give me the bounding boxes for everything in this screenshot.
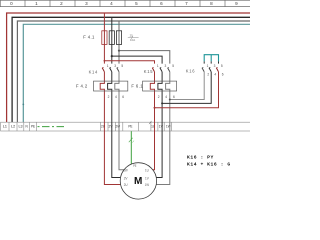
junction node 1V bbox=[161, 102, 163, 104]
contactor K14 contact pole 3 bbox=[110, 67, 112, 71]
svg-text:2: 2 bbox=[207, 73, 209, 77]
overload relay F6.1 box bbox=[143, 81, 177, 91]
wire K14 pole1 to F4.2 bbox=[100, 72, 104, 123]
svg-text:0: 0 bbox=[10, 1, 13, 6]
svg-text:F 4.2: F 4.2 bbox=[76, 84, 88, 89]
svg-text:F 4.1: F 4.1 bbox=[83, 34, 95, 39]
wire K16 pole2 to node 1W bbox=[170, 72, 204, 100]
svg-text:6: 6 bbox=[222, 73, 224, 77]
svg-text:8: 8 bbox=[210, 1, 213, 6]
motor pin 2W bbox=[124, 168, 129, 172]
label F4.1 bbox=[83, 34, 95, 39]
terminal dividers left group bbox=[9, 122, 37, 131]
wire branch L1 to pole 1 of K15 bbox=[104, 61, 154, 64]
motor pin 2U bbox=[124, 183, 128, 187]
svg-text:4: 4 bbox=[214, 73, 216, 77]
overload relay F4.2 box bbox=[94, 81, 128, 91]
svg-text:2: 2 bbox=[158, 95, 160, 99]
pin numbers 1 3 5 of K16 bbox=[207, 64, 223, 68]
pin numbers 2 4 6 under F4.2 bbox=[108, 95, 125, 99]
contactor K15 label bbox=[144, 69, 153, 74]
star bridge of K16 (teal) bbox=[204, 55, 218, 62]
contactor K14 contact pole 5 bbox=[117, 67, 119, 71]
svg-text:7: 7 bbox=[185, 1, 188, 6]
svg-text:PE: PE bbox=[31, 125, 36, 129]
terminal dividers motor group 2 bbox=[100, 122, 138, 131]
contactor K16 contact pole 5 bbox=[216, 61, 218, 71]
svg-text:6: 6 bbox=[122, 95, 124, 99]
svg-text:L1: L1 bbox=[3, 125, 7, 129]
svg-text:2: 2 bbox=[108, 95, 110, 99]
motor pin 1W bbox=[145, 183, 150, 187]
svg-text:2U: 2U bbox=[124, 183, 128, 187]
PE bus green dashed bbox=[38, 126, 67, 128]
wire L1 rail (red) bbox=[7, 13, 250, 122]
svg-text:PE: PE bbox=[128, 125, 133, 129]
svg-text:6: 6 bbox=[173, 95, 175, 99]
motor pin 1V bbox=[145, 176, 150, 180]
svg-text:4: 4 bbox=[115, 95, 117, 99]
svg-text:1: 1 bbox=[207, 64, 209, 68]
ruler column scale bbox=[0, 0, 250, 7]
wire branch L2 to pole 3 of K15 bbox=[112, 56, 162, 64]
svg-text:3: 3 bbox=[214, 64, 216, 68]
contactor K15 contact pole 1 bbox=[152, 67, 154, 71]
fuse F4.1 pole 3 bbox=[116, 31, 121, 45]
node on N wire bbox=[22, 104, 24, 106]
wire L2 to fuse F4.1 and pole 3 of K14 bbox=[111, 17, 113, 63]
cable slash mark at 1U bbox=[149, 121, 151, 124]
terminal labels L1 L2 L3 N PE bbox=[3, 125, 36, 129]
svg-text:K14 + K16 : G: K14 + K16 : G bbox=[187, 162, 231, 168]
svg-text:1: 1 bbox=[157, 64, 159, 68]
svg-text:M: M bbox=[134, 176, 142, 187]
wire 1V to motor bbox=[156, 122, 162, 178]
svg-text:1U: 1U bbox=[145, 168, 149, 172]
svg-text:2V: 2V bbox=[109, 125, 114, 129]
wire L2 rail (black) bbox=[12, 17, 250, 122]
contactor K16 contact pole 1 bbox=[202, 61, 204, 71]
terminal labels 1U 1V 1W bbox=[151, 125, 171, 129]
terminal dividers motor group 1 bbox=[151, 122, 172, 131]
wire L3 rail (gray) bbox=[17, 21, 250, 122]
svg-text:1V: 1V bbox=[159, 125, 164, 129]
value label fuse rating bbox=[128, 34, 139, 42]
svg-text:N: N bbox=[26, 125, 28, 129]
wire L3 to fuse F4.1 and pole 5 of K14 bbox=[118, 21, 120, 64]
wire PE green to motor bbox=[130, 131, 132, 164]
svg-text:9: 9 bbox=[235, 1, 238, 6]
svg-text:K15: K15 bbox=[144, 69, 153, 74]
wire K15 pole1 to F6.1 bbox=[150, 72, 154, 123]
pin numbers 2 4 6 under F6.1 bbox=[158, 95, 175, 99]
svg-text:1: 1 bbox=[35, 1, 38, 6]
svg-text:3: 3 bbox=[165, 64, 167, 68]
contactor K14 label bbox=[89, 70, 98, 75]
motor M1 bbox=[120, 163, 156, 199]
ruler numbers 0-9 bbox=[10, 1, 238, 6]
terminal labels 2U 2V 2W PE bbox=[101, 125, 133, 129]
contactor K16 label bbox=[186, 68, 195, 73]
svg-text:4: 4 bbox=[110, 1, 113, 6]
motor pin PE bbox=[133, 164, 137, 168]
svg-text:1: 1 bbox=[107, 64, 109, 68]
junction on L1 branch bbox=[104, 60, 106, 62]
junction node 1U bbox=[154, 107, 156, 109]
wire K15 pole3 to F6.1 bbox=[158, 72, 162, 123]
svg-text:K16: K16 bbox=[186, 68, 195, 73]
wire 1U to motor bbox=[153, 122, 155, 170]
pin numbers 1 3 5 of K14 bbox=[107, 64, 124, 68]
svg-text:25: 25 bbox=[130, 34, 134, 38]
contactor K15 contact pole 3 bbox=[160, 67, 162, 71]
pin numbers 2 4 6 of K16 bbox=[207, 73, 223, 77]
svg-text:3: 3 bbox=[85, 1, 88, 6]
svg-text:L3: L3 bbox=[18, 125, 22, 129]
motor pin 2V bbox=[124, 176, 129, 180]
svg-text:F 6.1: F 6.1 bbox=[131, 84, 143, 89]
wire K14 pole3 to F4.2 bbox=[108, 72, 112, 123]
svg-text:5: 5 bbox=[172, 64, 174, 68]
wire 2U to motor bbox=[104, 122, 120, 185]
fuse F4.1 pole 2 bbox=[109, 31, 114, 45]
note text K16 function bbox=[187, 155, 231, 168]
contactor K16 contact pole 3 bbox=[209, 61, 211, 71]
svg-text:5: 5 bbox=[121, 64, 123, 68]
junction node 1W bbox=[169, 99, 171, 101]
wire 1W to motor bbox=[156, 122, 170, 185]
label F4.2 bbox=[76, 84, 88, 89]
wire 2W to motor bbox=[119, 122, 124, 170]
label F6.1 bbox=[131, 84, 143, 89]
svg-text:K14: K14 bbox=[89, 70, 98, 75]
svg-text:2: 2 bbox=[60, 1, 63, 6]
pin numbers 1 3 5 of K15 bbox=[157, 64, 174, 68]
svg-text:5: 5 bbox=[221, 64, 223, 68]
wire K14 pole5 to F4.2 bbox=[115, 72, 119, 123]
cable slash mark on PE wire bbox=[129, 138, 134, 143]
contactor K14 contact pole 1 bbox=[102, 67, 104, 71]
svg-text:5: 5 bbox=[135, 1, 138, 6]
wire K16 pole6 to node 1U bbox=[155, 72, 219, 108]
wire K15 pole5 to F6.1 bbox=[166, 72, 170, 123]
svg-text:4: 4 bbox=[165, 95, 167, 99]
svg-text:10A: 10A bbox=[130, 38, 135, 42]
svg-text:K16 : PY: K16 : PY bbox=[187, 155, 214, 161]
wire L1 to fuse F4.1 and pole 1 of K14 bbox=[103, 13, 105, 64]
wire 2V to motor bbox=[112, 122, 121, 178]
junction on L3 branch bbox=[118, 50, 120, 52]
svg-text:6: 6 bbox=[160, 1, 163, 6]
fuse F4.1 pole 1 bbox=[102, 31, 107, 45]
junction on L2 branch bbox=[111, 55, 113, 57]
svg-text:L2: L2 bbox=[11, 125, 15, 129]
svg-text:2W: 2W bbox=[116, 125, 121, 129]
wire N rail (teal) bbox=[23, 24, 250, 122]
contactor K15 contact pole 5 bbox=[168, 67, 170, 71]
terminal strip X outer box bbox=[1, 122, 252, 131]
svg-text:3: 3 bbox=[114, 64, 116, 68]
motor pin 1U bbox=[145, 168, 149, 172]
wire K16 pole4 to node 1V bbox=[162, 72, 211, 104]
wire branch L3 to pole 5 of K15 bbox=[119, 51, 170, 64]
